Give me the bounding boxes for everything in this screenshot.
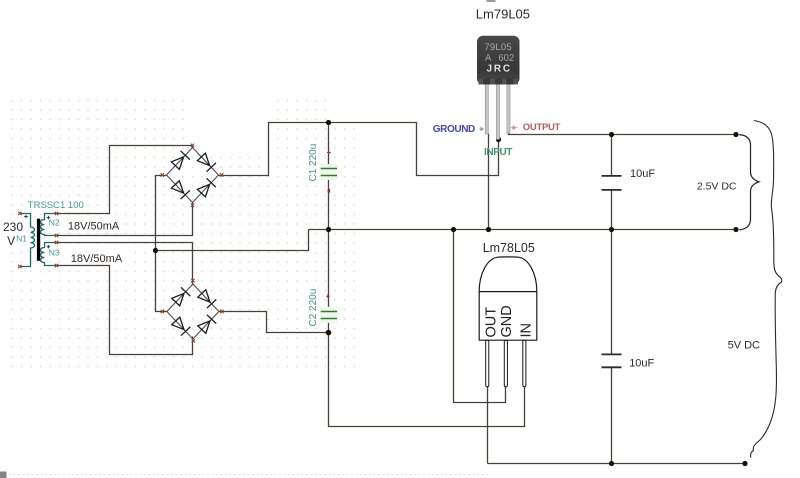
node bottom rail / 10uF — [609, 461, 614, 466]
terminal N3 top — [55, 241, 58, 244]
svg-text:N3: N3 — [49, 247, 60, 257]
wire N3 top to bridge2 top — [57, 243, 193, 285]
output arrow — [512, 126, 518, 129]
BR1 terminal top — [191, 144, 194, 147]
wire N2 bottom to bridge1 bottom — [57, 203, 193, 236]
wire 79L05 ground leg down to rail — [488, 134, 490, 230]
wire 10uF column bottom — [611, 368, 613, 464]
wire C1 column top — [328, 123, 330, 168]
svg-text:Lm78L05: Lm78L05 — [483, 241, 535, 255]
svg-text:Lm79L05: Lm79L05 — [476, 7, 530, 22]
node rail end — [733, 227, 738, 232]
wire C1 to rail — [328, 176, 330, 229]
svg-text:C1 220u: C1 220u — [308, 144, 319, 182]
wire 10uF column middle — [611, 191, 613, 354]
svg-text:JRC: JRC — [486, 63, 511, 74]
node C2 bottom — [326, 330, 332, 336]
terminal N2 bottom — [55, 234, 58, 237]
svg-text:10uF: 10uF — [630, 168, 655, 180]
78L05 body outline — [479, 257, 537, 340]
C1 lower mark — [328, 189, 330, 193]
node bridge-left / step — [153, 248, 158, 253]
svg-text:GND: GND — [499, 305, 515, 337]
wire bridge2 right to C2 node — [219, 312, 329, 333]
C2 plus mark — [326, 294, 330, 298]
terminal N1 bottom — [18, 265, 21, 268]
wire bottom rail — [488, 463, 746, 465]
big brace 5V — [751, 121, 782, 458]
BR2 terminal bottom — [192, 339, 195, 342]
wire 79L05 output — [509, 133, 737, 135]
node input leg — [496, 137, 501, 142]
node rail / C1-C2 — [326, 227, 331, 232]
bottom-left smudge — [0, 472, 7, 478]
white halos behind labels — [64, 219, 124, 232]
secondary winding N2 — [41, 214, 57, 236]
terminal N1 top — [18, 212, 21, 215]
BR1 terminal bottom — [191, 204, 194, 207]
svg-text:18V/50mA: 18V/50mA — [71, 253, 123, 265]
bridge rectifier BR1 (diodes D1-D4) — [167, 148, 219, 203]
wire mid rail — [309, 229, 737, 231]
node output wire / 10uF — [609, 132, 614, 137]
svg-text:INPUT: INPUT — [484, 147, 512, 158]
wire C2 bottom to 78L05 IN — [329, 319, 525, 426]
U1 79L05 legs (pins 1-3) — [485, 80, 510, 139]
node rail / 78L05 gnd branch — [451, 227, 456, 232]
bridge rectifier BR2 (diodes D5-D8) — [167, 284, 219, 339]
faint page border bottom — [0, 474, 490, 476]
wire 78L05 OUT to bottom rail — [487, 387, 489, 464]
svg-text:18V/50mA: 18V/50mA — [68, 221, 120, 233]
grid dot region — [8, 95, 357, 371]
U2 78L05 pins OUT/GND/IN — [486, 340, 526, 387]
U1 79L05 package body — [477, 36, 520, 85]
transformer polarity marks — [24, 215, 50, 249]
node output wire end — [733, 132, 738, 137]
svg-text:GROUND: GROUND — [433, 124, 475, 135]
wire N3 bottom to bridge2 bottom — [57, 266, 193, 355]
svg-text:79L05: 79L05 — [484, 42, 511, 53]
wire 10uF column top — [611, 135, 613, 175]
small brace 2.5V — [739, 135, 759, 230]
transformer core — [37, 219, 40, 261]
wire bridge1 left to bridge2 left — [156, 176, 168, 312]
svg-text:A602: A602 — [485, 53, 514, 64]
svg-text:2.5V DC: 2.5V DC — [697, 181, 737, 193]
terminal N3 bottom — [55, 264, 58, 267]
svg-text:OUTPUT: OUTPUT — [523, 122, 561, 133]
svg-text:10uF: 10uF — [629, 358, 654, 370]
BR2 terminal right — [220, 310, 223, 313]
svg-text:IN: IN — [518, 323, 534, 338]
BR2 terminal left — [161, 310, 164, 313]
svg-text:230: 230 — [3, 220, 23, 234]
BR2 terminal top — [191, 279, 194, 282]
top smudge — [487, 0, 496, 2]
ground arrow — [480, 128, 484, 131]
C1 plus mark — [327, 151, 331, 155]
BR1 terminal left — [161, 173, 164, 176]
svg-text:V: V — [7, 234, 15, 248]
node rail / 10uF — [609, 227, 614, 232]
node bottom rail end — [742, 461, 747, 466]
svg-text:N1: N1 — [16, 234, 27, 244]
node rail / 79L05 ground leg — [486, 227, 491, 232]
wire bridge1 right to 79L05 input — [219, 123, 499, 176]
wire mid-node step to rail — [156, 230, 309, 251]
terminal N2 top — [55, 212, 58, 215]
svg-text:OUT: OUT — [483, 307, 499, 338]
svg-text:TRSSC1 100: TRSSC1 100 — [28, 200, 84, 211]
wire rail to C2 — [328, 230, 330, 311]
wire N2 top to bridge1 top — [57, 146, 193, 214]
svg-text:N2: N2 — [49, 217, 60, 227]
node top wire / C1 — [326, 120, 331, 125]
BR1 terminal right — [220, 173, 223, 176]
secondary winding N3 — [41, 243, 57, 266]
svg-text:C2 220u: C2 220u — [308, 289, 319, 327]
wire rail to 78L05 GND — [454, 230, 506, 403]
svg-text:5V DC: 5V DC — [728, 339, 760, 351]
primary winding N1 — [20, 214, 35, 267]
